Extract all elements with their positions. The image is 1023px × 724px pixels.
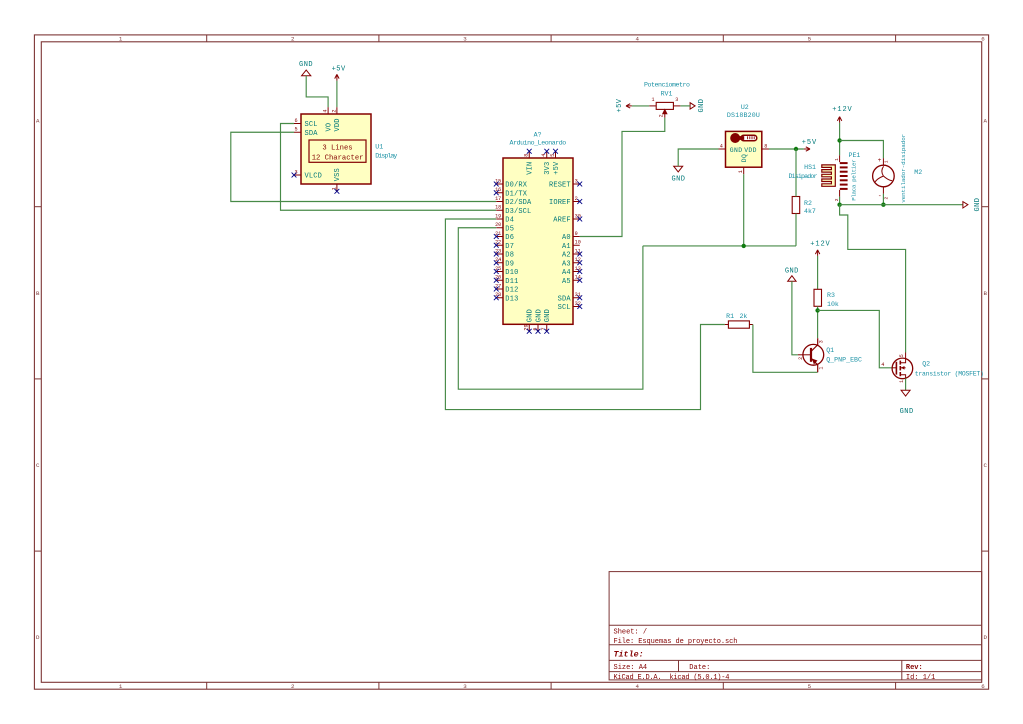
- svg-text:D0/RX: D0/RX: [505, 182, 527, 190]
- svg-text:GND: GND: [974, 198, 982, 212]
- svg-text:Placa peltier: Placa peltier: [850, 159, 857, 201]
- svg-text:RV1: RV1: [661, 90, 673, 97]
- wire +12V to R3 top: [817, 256, 819, 289]
- pin 6 SCL of U1: [294, 118, 318, 129]
- arduino reference field A?: [534, 131, 542, 138]
- svg-text:1: 1: [899, 380, 905, 383]
- pin left of R1: [725, 324, 729, 326]
- svg-text:1: 1: [651, 97, 654, 103]
- junction R3 Q1 node: [815, 308, 819, 312]
- svg-text:Date:: Date:: [689, 664, 710, 672]
- svg-text:GND: GND: [900, 408, 914, 416]
- wire peltier top to fan M2: [840, 141, 884, 159]
- svg-text:10k: 10k: [827, 301, 839, 308]
- no-connect x on arduino pin 5: [553, 149, 558, 154]
- wire +5V to U1 VDD pin: [336, 81, 338, 108]
- heatsink HS1 reference field: [804, 164, 816, 171]
- transistor Q2 arrow: [901, 366, 905, 370]
- pin 3 of RV1 right: [673, 97, 680, 106]
- svg-text:D4: D4: [505, 217, 514, 225]
- svg-text:6: 6: [981, 36, 985, 43]
- svg-text:M2: M2: [914, 169, 922, 176]
- svg-text:19: 19: [495, 213, 501, 219]
- svg-text:D: D: [983, 634, 987, 641]
- svg-text:D6: D6: [505, 234, 514, 242]
- no-connect x on arduino pin 23: [494, 252, 499, 257]
- svg-text:5: 5: [899, 354, 905, 357]
- svg-text:File: Esquemas de proyecto.sch: File: Esquemas de proyecto.sch: [614, 638, 738, 646]
- svg-text:GND: GND: [536, 309, 544, 322]
- svg-text:8: 8: [524, 154, 530, 157]
- wire U2 DQ pin down to DQ net: [743, 174, 745, 246]
- wire fan M2 bottom to GND net: [882, 194, 884, 205]
- svg-text:1: 1: [331, 187, 337, 190]
- title block outline: [609, 572, 982, 680]
- svg-text:B: B: [36, 290, 40, 297]
- svg-text:5: 5: [550, 154, 556, 157]
- wire GND net to right GND arrow: [840, 204, 963, 206]
- junction U2 DQ net: [742, 244, 746, 248]
- wire U1 SCL to arduino D3/SCL: [281, 124, 497, 211]
- svg-text:B: B: [983, 290, 987, 297]
- svg-text:C: C: [36, 462, 40, 469]
- lcd U1 value field Display: [375, 153, 397, 160]
- pin 21 D6 of arduino: [495, 231, 514, 242]
- no-connect x on arduino pin 24: [494, 260, 499, 265]
- title block title text: [614, 649, 644, 659]
- frame row ticks right: [982, 207, 989, 551]
- svg-text:3: 3: [463, 36, 467, 43]
- svg-text:GND: GND: [671, 176, 685, 184]
- pin 16 D1/TX of arduino: [495, 187, 528, 198]
- svg-text:2: 2: [291, 36, 295, 43]
- power GND arrow right border: [963, 198, 982, 212]
- svg-text:R1: R1: [726, 313, 734, 320]
- svg-text:5: 5: [808, 683, 812, 690]
- svg-text:18: 18: [495, 205, 501, 211]
- pin 1 DQ of U2 bottom: [738, 154, 748, 174]
- svg-text:8: 8: [764, 143, 767, 149]
- svg-text:5: 5: [294, 127, 297, 133]
- title block size text: [614, 664, 648, 672]
- svg-text:VO: VO: [325, 123, 333, 132]
- pin 1 of RV1 left: [649, 97, 656, 106]
- potentiometer RV1 reference field: [661, 90, 673, 97]
- pin 24 D9 of arduino: [495, 257, 514, 268]
- pin 27 D12 of arduino: [495, 283, 518, 294]
- no-connect x on arduino pin 2: [577, 199, 582, 204]
- transistor Q2 pin number 1 source: [899, 380, 905, 383]
- svg-text:Disipador: Disipador: [789, 173, 818, 180]
- peltier plate PE1 bars: [840, 162, 848, 190]
- frame column labels bottom: [119, 683, 985, 690]
- transistor Q1 emitter arrow: [813, 359, 817, 363]
- svg-text:2: 2: [575, 196, 578, 202]
- svg-text:C: C: [983, 462, 987, 469]
- title block kicad version text: [614, 674, 730, 682]
- svg-text:1: 1: [119, 36, 123, 43]
- pin 17 D2/SDA of arduino: [495, 196, 532, 207]
- resistor R2 body: [792, 197, 800, 214]
- wire U2 VDD pin to +5V and R2: [769, 148, 804, 150]
- svg-text:DS18B20U: DS18B20U: [727, 112, 760, 119]
- svg-text:A1: A1: [562, 243, 571, 251]
- transistor Q1 pin number 1: [818, 367, 824, 370]
- wire U1 SDA to arduino D2/SDA: [231, 132, 496, 201]
- pin 4 VO of U1 top: [323, 107, 334, 131]
- svg-text:3: 3: [675, 97, 678, 103]
- svg-text:+12V: +12V: [810, 240, 830, 248]
- pin 23 D8 of arduino: [495, 248, 514, 259]
- peltier PE1 top pin: [834, 155, 840, 162]
- svg-text:GND: GND: [299, 61, 313, 69]
- pin 10 A1 of arduino: [562, 240, 581, 251]
- svg-text:A?: A?: [534, 131, 542, 138]
- svg-text:10: 10: [575, 240, 581, 246]
- no-connect x on arduino pin 6: [536, 329, 541, 334]
- fan M2 blades: [875, 166, 892, 182]
- pin 8 VIN of arduino top: [524, 151, 535, 175]
- svg-text:GND: GND: [785, 267, 799, 275]
- resistor R1 body: [728, 321, 749, 328]
- wire R3 bottom to Q1 collector: [817, 306, 819, 338]
- svg-text:D12: D12: [505, 287, 518, 295]
- wire GND to U1 VO pin: [306, 76, 328, 108]
- svg-text:VLCD: VLCD: [305, 173, 322, 181]
- pin 31 SDA of arduino: [558, 292, 581, 303]
- svg-text:VSS: VSS: [334, 168, 342, 181]
- svg-text:D9: D9: [505, 260, 514, 268]
- title block id text: [906, 674, 935, 682]
- pin 1 VSS of U1 bottom: [331, 168, 342, 191]
- svg-text:D13: D13: [505, 295, 518, 303]
- svg-text:1: 1: [834, 158, 840, 161]
- pin 5 +5V of arduino top: [550, 151, 561, 175]
- svg-text:A5: A5: [562, 278, 571, 286]
- power GND above Q1 base: [785, 267, 799, 281]
- transistor Q1 reference field: [826, 347, 834, 354]
- peltier PE1 bottom pin: [834, 190, 840, 201]
- lcd U1 reference field: [375, 143, 383, 150]
- wire peltier bottom to junction: [839, 197, 841, 205]
- title block sheet text: [614, 629, 648, 637]
- svg-text:Id: 1/1: Id: 1/1: [906, 674, 935, 682]
- transistor Q1 pin number 3: [818, 340, 824, 343]
- title block dividers: [609, 625, 982, 680]
- svg-text:SDA: SDA: [305, 130, 319, 138]
- svg-text:transistor (MOSFET): transistor (MOSFET): [915, 371, 984, 378]
- frame row labels left: [36, 118, 40, 642]
- svg-text:DQ: DQ: [741, 154, 748, 162]
- svg-text:PE1: PE1: [849, 152, 861, 159]
- svg-text:ventilador-disipador: ventilador-disipador: [900, 134, 907, 203]
- svg-text:4k7: 4k7: [804, 208, 816, 215]
- svg-text:4: 4: [881, 362, 884, 368]
- pin 12 A3 of arduino: [562, 257, 581, 268]
- no-connect x on arduino pin 13: [577, 269, 582, 274]
- transistor Q2 pin number 4 gate: [881, 362, 884, 368]
- transistor Q2 pin number 5 drain: [899, 354, 905, 357]
- svg-text:SCL: SCL: [305, 121, 318, 129]
- svg-text:U2: U2: [741, 104, 749, 111]
- wire peltier junction jog down to Q2 drain: [840, 205, 906, 353]
- svg-text:D: D: [36, 634, 40, 641]
- svg-text:A: A: [36, 118, 40, 125]
- svg-text:3: 3: [818, 340, 824, 343]
- peltier PE1 value field Placa peltier: [850, 159, 857, 201]
- svg-text:2: 2: [659, 114, 665, 117]
- pin 9 A0 of arduino: [562, 231, 580, 242]
- lcd U1 display screen rectangle: [309, 140, 366, 162]
- no-connect x on arduino pin 29: [527, 329, 532, 334]
- resistor R2 reference field: [804, 200, 812, 207]
- temperature sensor U2 reference field: [741, 104, 749, 111]
- wire GND down to Q1 base: [792, 281, 798, 355]
- svg-text:GND: GND: [527, 309, 535, 322]
- pin 2 VDD of U1 top: [331, 107, 342, 131]
- wire DQ horizontal net: [643, 245, 796, 247]
- power GND above U1: [299, 61, 313, 76]
- svg-text:4: 4: [323, 109, 329, 112]
- wire R3 junction to Q2 gate: [818, 310, 892, 367]
- svg-text:VDD: VDD: [744, 147, 756, 154]
- svg-text:+5V: +5V: [332, 66, 346, 74]
- svg-text:9: 9: [575, 231, 578, 237]
- pin 2 wiper of RV1: [659, 109, 667, 117]
- pin 22 D7 of arduino: [495, 240, 514, 251]
- pin 8 VDD of U2: [744, 143, 769, 154]
- pin 29 GND of arduino bottom: [524, 309, 535, 331]
- svg-text:Q_PNP_EBC: Q_PNP_EBC: [826, 357, 862, 364]
- svg-text:+: +: [878, 157, 882, 164]
- no-connect x on arduino pin 12: [577, 260, 582, 265]
- power +5V right of U2: [802, 139, 817, 151]
- svg-text:+5V: +5V: [553, 161, 561, 175]
- pin 14 A5 of arduino: [562, 275, 581, 286]
- pin 18 D3/SCL of arduino: [495, 205, 531, 216]
- no-connect x on arduino pin 25: [494, 269, 499, 274]
- frame column ticks top: [207, 35, 896, 42]
- wire R1 right to Q1 emitter: [753, 325, 818, 373]
- svg-text:4: 4: [635, 36, 639, 43]
- svg-text:Arduino_Leonardo: Arduino_Leonardo: [510, 139, 567, 146]
- svg-text:20: 20: [495, 222, 501, 228]
- svg-text:6: 6: [981, 683, 985, 690]
- fan M2 minus pin bottom: [878, 187, 890, 200]
- svg-text:Q2: Q2: [922, 361, 930, 368]
- arduino value field Arduino_Leonardo: [510, 139, 567, 146]
- power GND below U2 pin4: [671, 166, 685, 183]
- power GND below Q2: [900, 390, 914, 416]
- pin 6 GND of arduino bottom: [532, 309, 543, 331]
- wire R2 bottom to DQ net: [795, 214, 797, 246]
- svg-text:GND: GND: [544, 309, 552, 322]
- no-connect x on arduino pin 22: [494, 243, 499, 248]
- wire RV1 pin3 to GND: [680, 105, 690, 107]
- no-connect x on arduino pin 30: [577, 217, 582, 222]
- transistor Q2 value field transistor (MOSFET): [915, 371, 984, 378]
- transistor Q2 circle: [892, 358, 913, 379]
- fan M2 circle: [873, 165, 895, 187]
- heatsink HS1 value field Disipador: [789, 173, 818, 180]
- no-connect x on U1 VLCD pin: [292, 173, 297, 178]
- pin 4 GND of U2: [719, 143, 743, 154]
- svg-text:VDD: VDD: [334, 119, 342, 132]
- resistor R3 body: [814, 289, 822, 306]
- no-connect x on arduino pin 14: [577, 278, 582, 283]
- no-connect x on arduino pin 26: [494, 278, 499, 283]
- resistor R2 value field 4k7: [804, 208, 816, 215]
- pin 30 AREF of arduino: [553, 213, 581, 224]
- svg-text:HS1: HS1: [804, 164, 816, 171]
- no-connect x on arduino pin 15: [494, 182, 499, 187]
- wire R2 top to +5V junction: [795, 149, 797, 197]
- no-connect x on arduino pin 3: [577, 182, 582, 187]
- transistor Q1 value field Q_PNP_EBC: [826, 357, 862, 364]
- pin right of R1: [749, 324, 753, 326]
- pin 28 D13 of arduino: [495, 292, 518, 303]
- svg-text:D3/SCL: D3/SCL: [505, 208, 531, 216]
- svg-text:29: 29: [524, 324, 530, 330]
- frame column labels top: [119, 36, 985, 43]
- svg-text:1: 1: [119, 683, 123, 690]
- power +12V above peltier: [832, 106, 852, 123]
- svg-text:17: 17: [495, 196, 501, 202]
- svg-text:R3: R3: [827, 292, 835, 299]
- svg-text:2k: 2k: [739, 313, 747, 320]
- transistor Q1 circle: [803, 344, 824, 365]
- fan M2 plus pin top: [878, 157, 890, 165]
- pin 19 D4 of arduino: [495, 213, 514, 224]
- transistor Q2 mosfet internals: [892, 353, 906, 379]
- svg-text:4: 4: [541, 154, 547, 157]
- temperature sensor U2 value field DS18B20U: [727, 112, 760, 119]
- svg-text:2: 2: [798, 357, 804, 360]
- svg-text:SCL: SCL: [558, 304, 571, 312]
- svg-text:2: 2: [883, 197, 889, 200]
- no-connect x on arduino pin 8: [527, 149, 532, 154]
- pin 25 D10 of arduino: [495, 266, 518, 277]
- svg-text:4: 4: [720, 143, 723, 149]
- pin 3 VLCD of U1: [294, 170, 322, 181]
- power GND right of RV1: [690, 99, 706, 113]
- svg-text:12 Character: 12 Character: [312, 154, 364, 162]
- svg-text:VIN: VIN: [527, 162, 535, 175]
- fan M2 value field ventilador-disipador: [900, 134, 907, 203]
- thermometer icon inside U2: [730, 133, 757, 143]
- svg-text:Q1: Q1: [826, 347, 834, 354]
- svg-text:KiCad E.D.A. kicad (5.0.1)-4: KiCad E.D.A. kicad (5.0.1)-4: [614, 674, 730, 682]
- resistor R1 reference field: [726, 313, 734, 320]
- title block file text: [614, 638, 738, 646]
- svg-text:U1: U1: [375, 143, 383, 150]
- temperature sensor U2 body: [726, 131, 762, 167]
- potentiometer RV1 name field Potenciometro: [644, 82, 690, 89]
- frame row ticks left: [34, 207, 41, 551]
- svg-text:Potenciometro: Potenciometro: [644, 82, 690, 89]
- svg-text:1: 1: [818, 367, 824, 370]
- svg-text:+12V: +12V: [832, 106, 852, 114]
- pin 11 A2 of arduino: [562, 248, 581, 259]
- pin 32 SCL of arduino: [558, 301, 581, 312]
- svg-text:A4: A4: [562, 269, 571, 277]
- junction fan bottom node: [881, 203, 885, 207]
- pin 2 IOREF of arduino: [549, 196, 580, 207]
- wire arduino D4 to R1: [445, 219, 725, 410]
- junction peltier top node: [837, 138, 841, 142]
- svg-text:4: 4: [635, 683, 639, 690]
- svg-text:A2: A2: [562, 252, 571, 260]
- svg-text:D2/SDA: D2/SDA: [505, 199, 532, 207]
- transistor Q2 reference field: [922, 361, 930, 368]
- power +5V left of RV1: [616, 98, 632, 112]
- svg-text:1: 1: [738, 170, 744, 173]
- svg-text:+5V: +5V: [802, 139, 817, 147]
- svg-text:6: 6: [294, 118, 297, 124]
- svg-text:IOREF: IOREF: [549, 199, 571, 207]
- svg-text:Size: A4: Size: A4: [614, 664, 648, 672]
- svg-text:GND: GND: [730, 147, 742, 154]
- svg-text:RESET: RESET: [549, 182, 571, 190]
- resistor R1 value field 2k: [739, 313, 747, 320]
- wire arduino A0 to RV1 wiper: [580, 118, 665, 237]
- svg-text:3V3: 3V3: [544, 162, 552, 175]
- no-connect x on arduino pin 4: [544, 149, 549, 154]
- svg-text:Display: Display: [375, 153, 397, 160]
- wire U2 GND pin to GND symbol: [678, 149, 718, 166]
- lcd U1 body: [301, 114, 371, 184]
- junction +5V R2 node: [794, 147, 798, 151]
- wire arduino D5 to U2 DQ net: [458, 228, 643, 389]
- no-connect x on arduino pin 28: [494, 295, 499, 300]
- peltier PE1 reference field: [849, 152, 861, 159]
- svg-text:D7: D7: [505, 243, 514, 251]
- svg-text:A3: A3: [562, 260, 571, 268]
- power +5V above U1: [332, 66, 346, 81]
- wire +12V to peltier top junction: [839, 123, 841, 156]
- frame column ticks bottom: [207, 682, 896, 689]
- power +12V above R3: [810, 240, 830, 256]
- svg-text:2: 2: [331, 109, 337, 112]
- svg-text:R2: R2: [804, 200, 812, 207]
- transistor Q1 base bar and pins: [798, 338, 818, 372]
- svg-text:Rev:: Rev:: [906, 664, 923, 672]
- pin 4 3V3 of arduino top: [541, 151, 552, 175]
- svg-text:D8: D8: [505, 252, 514, 260]
- svg-text:D1/TX: D1/TX: [505, 190, 527, 198]
- no-connect x on arduino pin 32: [577, 304, 582, 309]
- junction peltier bottom node: [837, 203, 841, 207]
- pin 3 RESET of arduino: [549, 178, 580, 189]
- no-connect x on arduino pin 16: [494, 190, 499, 195]
- svg-text:A: A: [983, 118, 987, 125]
- no-connect x on U1 VSS pin: [335, 189, 340, 194]
- wire RV1 pin1 to +5V: [632, 105, 649, 107]
- svg-text:AREF: AREF: [553, 217, 570, 225]
- fan M2 reference field: [914, 169, 922, 176]
- svg-text:3 Lines: 3 Lines: [322, 145, 352, 153]
- potentiometer RV1 body: [656, 102, 673, 109]
- svg-text:Sheet: /: Sheet: /: [614, 629, 648, 637]
- pin 20 D5 of arduino: [495, 222, 514, 233]
- transistor Q1 pin number 2: [798, 357, 804, 360]
- frame row labels right: [983, 118, 987, 642]
- svg-text:A0: A0: [562, 234, 571, 242]
- title block rev text: [906, 664, 923, 672]
- svg-text:5: 5: [808, 36, 812, 43]
- svg-text:Title:: Title:: [614, 649, 644, 659]
- heatsink HS1 icon: [822, 165, 836, 186]
